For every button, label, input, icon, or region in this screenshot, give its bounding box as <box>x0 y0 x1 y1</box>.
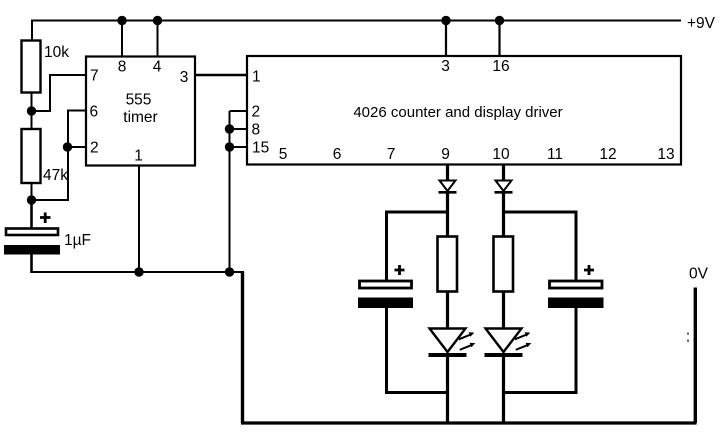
wire ground horizontal run <box>31 271 245 273</box>
wire 0V bottom rail <box>241 421 697 424</box>
wire ground drop to 0V rail <box>241 272 244 423</box>
pin 5 label of 4026 <box>279 146 288 163</box>
pin 2 label of 555 <box>90 140 99 157</box>
capacitor C2 positive plate <box>360 281 412 288</box>
wire 555 pin 4 to +9V rail <box>157 21 159 57</box>
pin 6 label of 4026 <box>333 146 342 163</box>
junction below 47k <box>27 195 36 204</box>
wire resistor R2 to LED2 <box>502 291 505 329</box>
diode D1 <box>439 181 457 193</box>
pin 3 label of 555 <box>180 69 189 86</box>
svg-text:3: 3 <box>180 69 189 86</box>
wire 10k bottom to junction <box>31 92 33 129</box>
wire LED2 to 0V rail <box>502 355 505 423</box>
pin 15 label of 4026 <box>252 140 269 157</box>
wire capacitor C3 to LED2 branch <box>502 308 578 394</box>
pin 11 label of 4026 <box>547 146 563 163</box>
wire 47k bottom to junction <box>31 183 33 200</box>
svg-text:2: 2 <box>90 140 99 157</box>
LED2 <box>485 329 532 356</box>
wire 4026 pin 9 to diode D1 <box>446 165 449 181</box>
svg-text:2: 2 <box>252 104 261 121</box>
svg-text:4026 counter and display drive: 4026 counter and display driver <box>353 104 562 121</box>
junction pin2 / pin6 tie <box>63 142 72 151</box>
wire 4026 pin 15 stub <box>230 146 248 148</box>
wire 555 pin 2 stub <box>68 146 86 148</box>
wire junction down to capacitor 1uF <box>30 200 33 229</box>
wire LED1 to 0V rail <box>446 355 449 423</box>
pin 1 label of 555 <box>134 148 143 165</box>
wire 4026 pin 2 stub <box>230 110 248 112</box>
wire smoothing tie D1 branch to capacitor C2 <box>385 211 446 280</box>
pin 2 label of 4026 <box>252 104 261 121</box>
capacitor C2 polarity plus sign <box>395 265 405 275</box>
wire 555 pin 7 to resistor junction <box>36 75 86 111</box>
pin 4 label of 555 <box>153 59 162 76</box>
svg-text:+9V: +9V <box>687 15 716 32</box>
wire 4026 pin 16 to +9V rail <box>498 21 500 57</box>
wire capacitor C2 to LED1 branch <box>385 308 449 394</box>
svg-text:10: 10 <box>492 146 510 163</box>
svg-text:1: 1 <box>134 148 143 165</box>
resistor 47k <box>22 129 69 184</box>
node 0V label <box>689 266 709 283</box>
svg-text:11: 11 <box>547 146 563 163</box>
pin 6 label of 555 <box>90 104 99 121</box>
wire 4026 pin 3 to +9V rail <box>445 21 447 57</box>
capacitor C3 negative plate <box>548 298 604 309</box>
svg-text:timer: timer <box>123 109 157 126</box>
pin 8 label of 4026 <box>252 122 261 139</box>
pin 16 label of 4026 <box>492 58 509 75</box>
svg-text:1µF: 1µF <box>64 232 91 249</box>
wire 0V terminal drop <box>694 288 697 424</box>
diode D2 <box>495 181 513 193</box>
wire smoothing tie D2 branch to capacitor C3 <box>505 211 578 280</box>
pin 12 label of 4026 <box>599 146 616 163</box>
wire diode D2 to resistor R2 <box>502 193 505 236</box>
junction +9V rail / 4026 pin 16 <box>495 16 504 25</box>
resistor 10k <box>22 41 70 93</box>
wire 555 pin 8 to +9V rail <box>121 21 123 57</box>
wire +9V supply rail <box>32 20 681 22</box>
capacitor C3 positive plate <box>550 281 603 288</box>
wire diode D1 to resistor R1 <box>446 193 449 236</box>
capacitor C1 value label 1uF <box>64 232 91 249</box>
pin 10 label of 4026 <box>492 146 510 163</box>
pin 9 label of 4026 <box>441 146 450 163</box>
pin 7 label of 555 <box>90 68 99 85</box>
junction ground / 555 pin1 <box>134 267 143 276</box>
junction chain / pin 8 <box>225 124 234 133</box>
svg-text:13: 13 <box>657 146 674 163</box>
capacitor C1 1uF negative plate <box>4 245 60 255</box>
junction chain / pin 15 <box>225 142 234 151</box>
junction between 10k and 47k <box>27 106 36 115</box>
wire 4026 pin 8 stub <box>230 128 248 130</box>
svg-text:8: 8 <box>252 122 261 139</box>
wire 4026 pin 10 to diode D2 <box>502 165 505 181</box>
node +9V label <box>687 15 716 32</box>
svg-text:7: 7 <box>90 68 99 85</box>
capacitor C2 negative plate <box>358 298 413 309</box>
pin 13 label of 4026 <box>657 146 674 163</box>
wire resistor R1 to LED1 <box>446 291 449 329</box>
svg-text:12: 12 <box>599 146 616 163</box>
svg-text:10k: 10k <box>44 44 69 61</box>
wire capacitor C1 to ground run <box>30 254 33 273</box>
svg-text:3: 3 <box>441 58 450 75</box>
resistor R1 <box>438 237 458 292</box>
svg-text:555: 555 <box>126 92 152 109</box>
pin 8 label of 555 <box>118 59 127 76</box>
wire 555 pin 1 to ground <box>138 166 140 273</box>
svg-text:4: 4 <box>153 59 162 76</box>
pin 7 label of 4026 <box>387 146 396 163</box>
capacitor C1 1uF positive plate <box>6 229 58 236</box>
wire 555 pin 3 to 4026 pin 1 <box>195 74 247 76</box>
resistor R2 <box>494 237 514 292</box>
svg-text:6: 6 <box>90 104 99 121</box>
IC U1 555 timer body <box>86 57 195 166</box>
junction +9V rail / pin 4 <box>153 16 162 25</box>
svg-text:15: 15 <box>252 140 269 157</box>
wire 555 pin 6 / pin 2 tie down to 47k junction <box>36 111 86 201</box>
junction +9V rail / pin 8 <box>117 16 126 25</box>
svg-text:9: 9 <box>441 146 450 163</box>
svg-text:0V: 0V <box>689 266 709 283</box>
svg-text:47k: 47k <box>43 167 68 184</box>
capacitor C3 polarity plus sign <box>584 265 594 275</box>
svg-text:16: 16 <box>492 58 509 75</box>
junction +9V rail / 4026 pin 3 <box>441 16 450 25</box>
pin 1 label of 4026 <box>252 69 261 86</box>
svg-text:5: 5 <box>279 146 288 163</box>
svg-text:1: 1 <box>252 69 261 86</box>
svg-text:7: 7 <box>387 146 396 163</box>
wire from +9V rail down to 10k resistor <box>31 20 33 42</box>
IC U2 4026 counter body <box>247 56 681 165</box>
junction ground / 4026 chain <box>225 267 234 276</box>
svg-text:8: 8 <box>118 59 127 76</box>
capacitor C1 1uF polarity plus sign <box>40 213 51 224</box>
stray colon mark <box>687 333 689 342</box>
LED1 <box>429 329 476 356</box>
pin 3 label of 4026 <box>441 58 450 75</box>
wire 4026 pins 2/8/15 chain to ground <box>229 111 231 272</box>
svg-text:6: 6 <box>333 146 342 163</box>
